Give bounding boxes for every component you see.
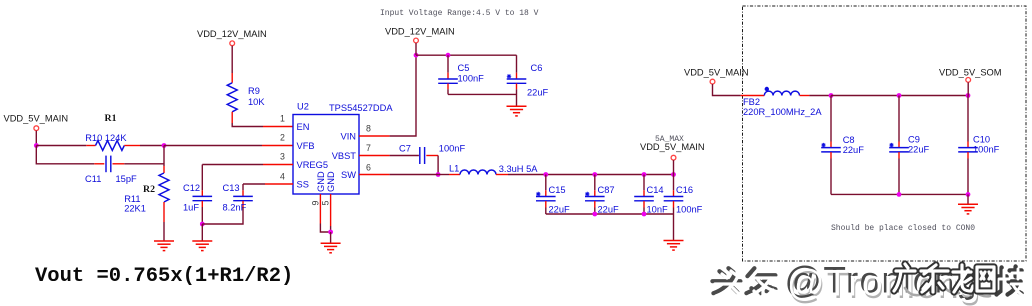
wire R9 to EN pin 1 [232,123,293,127]
svg-text:C5: C5 [458,63,470,73]
svg-text:Vout =0.765x(1+R1/R2): Vout =0.765x(1+R1/R2) [35,265,293,288]
wire junction to VFB pin 2 [164,145,293,147]
node C15 top [543,172,548,177]
wire C13 to junction [202,207,243,224]
svg-text:R1: R1 [105,113,117,124]
svg-text:SW: SW [341,170,356,180]
wire port to node [35,131,37,146]
ground under IC [321,243,341,253]
svg-text:R9: R9 [248,86,260,96]
svg-text:10K: 10K [248,97,265,107]
watermark overlay glyph 网 [977,267,994,291]
svg-text:22K1: 22K1 [124,204,146,214]
wire VBST pin 7 [359,155,419,157]
svg-text:22uF: 22uF [527,88,549,98]
svg-text:22uF: 22uF [549,205,571,215]
svg-text:C12: C12 [183,183,200,193]
wire bus to ground [673,214,675,241]
watermark hidden strokes under overlay [905,286,990,296]
power port VDD_5V_MAIN (output) [640,142,705,160]
capacitor C9 22uF polarized [889,96,929,195]
svg-text:VDD_12V_MAIN: VDD_12V_MAIN [197,29,267,39]
svg-text:10nF: 10nF [647,205,669,215]
power port VDD_5V_SOM [939,67,1002,82]
svg-text:GND: GND [316,171,326,192]
wire SW pin 6 [359,174,438,176]
svg-text:8: 8 [366,124,371,134]
node C14 bottom [642,212,647,217]
node C87 top [592,172,597,177]
wire input cap bottom bus [448,93,517,95]
wire GND pin 5 [330,194,332,232]
svg-text:VIN: VIN [341,132,357,142]
node C87 bottom [592,212,597,217]
svg-text:C10: C10 [973,135,990,145]
wire port to FB2 [713,84,765,96]
watermark overlay glyph 龙 [953,265,973,292]
svg-text:R2: R2 [143,184,155,195]
svg-text:VDD_5V_MAIN: VDD_5V_MAIN [640,142,705,152]
svg-text:22uF: 22uF [908,145,930,155]
capacitor C16 100nF [664,175,703,215]
svg-text:C11: C11 [85,174,101,184]
watermark overlay glyph 广 [894,264,915,291]
svg-text:Input Voltage Range:4.5 V to 1: Input Voltage Range:4.5 V to 18 V [380,9,539,18]
svg-text:100nF: 100nF [676,205,703,215]
watermark text @Tronlong [785,260,982,306]
node C12/C13 ground junction [200,222,205,227]
wire input rail [416,54,517,56]
svg-text:4: 4 [280,172,285,182]
svg-text:VDD_12V_MAIN: VDD_12V_MAIN [385,27,455,37]
wire junction to ground [201,224,203,241]
svg-text:Should be place closed to CON0: Should be place closed to CON0 [831,224,975,233]
svg-text:1: 1 [280,114,285,124]
svg-text:22uF: 22uF [598,205,620,215]
wire R10 to junction [140,145,164,147]
resistor R10 124K [85,133,140,150]
wire C12 to junction [201,207,203,224]
wire output cap bottom bus [546,213,674,215]
svg-text:2: 2 [280,133,285,143]
dashed region box [743,6,1027,261]
svg-text:C15: C15 [549,185,566,195]
svg-text:1uF: 1uF [183,203,199,213]
svg-text:SS: SS [297,180,309,190]
watermark [712,260,1024,306]
node C9 bottom [897,192,902,197]
wire L1 to output rail [508,174,546,176]
wire VREG5 pin 3 [202,165,293,191]
watermark glyph 头 [712,268,743,296]
wire port to rail [967,82,969,95]
node C5 top [446,53,451,58]
node C10 bottom [966,192,971,197]
capacitor C15 22uF polarized [536,175,570,215]
svg-text:C6: C6 [531,63,543,73]
node VIN rail junction [414,53,419,58]
node C9 top [897,93,902,98]
svg-text:22uF: 22uF [843,145,865,155]
svg-text:C16: C16 [676,185,693,195]
svg-text:C9: C9 [908,135,920,145]
capacitor C11 15pF [85,156,137,184]
svg-text:3.3uH 5A: 3.3uH 5A [499,164,539,174]
wire node to R10 [36,145,86,147]
power port VDD_5V_MAIN (right) [684,67,749,84]
wire output rail [546,174,674,176]
svg-text:VDD_5V_SOM: VDD_5V_SOM [939,67,1002,77]
resistor R11 22K1 [124,146,169,223]
node feedback junction [162,143,167,148]
watermark overlay glyph 东 [921,265,948,292]
svg-text:7: 7 [366,143,371,153]
wire FB2 to rail [809,95,831,97]
capacitor C5 100nF [438,55,484,94]
node IC ground junction [328,230,333,235]
svg-text:C13: C13 [223,183,240,193]
svg-text:C8: C8 [843,135,855,145]
wire SOM bottom bus [831,193,968,195]
ground under C16 [664,241,684,251]
svg-text:L1: L1 [449,163,459,173]
ferrite bead FB2 220R_100MHz_2A [743,87,822,117]
svg-text:U2: U2 [297,102,309,112]
svg-text:R10 124K: R10 124K [85,133,127,143]
watermark glyph 条 [746,268,778,296]
wire down to C11 branch [36,146,94,164]
svg-text:6: 6 [366,163,371,173]
wire SS pin 4 [243,184,293,190]
wire VIN pin 8 [359,55,416,136]
wire C7 down to SW [437,156,439,175]
wire port to rail [415,43,417,55]
ground under C10 [958,204,978,214]
capacitor C87 22uF polarized [585,175,619,215]
svg-text:VBST: VBST [332,151,357,161]
svg-text:100nF: 100nF [458,74,485,84]
svg-text:VFB: VFB [297,141,315,151]
svg-text:VDD_5V_MAIN: VDD_5V_MAIN [684,67,749,77]
wire to ground [330,232,332,243]
svg-text:C87: C87 [598,185,615,195]
ground under C12 [192,241,212,251]
svg-text:VREG5: VREG5 [297,160,329,170]
resistor R9 10K [227,73,265,123]
svg-text:5: 5 [321,201,331,206]
svg-text:C14: C14 [647,185,664,195]
capacitor C13 8.2nF [223,183,253,213]
svg-text:R11: R11 [124,194,140,204]
node C8 top [829,93,834,98]
capacitor C8 22uF polarized [821,96,864,195]
wire bus to ground [967,194,969,204]
svg-text:FB2: FB2 [743,97,760,107]
svg-text:VDD_5V_MAIN: VDD_5V_MAIN [4,114,69,124]
capacitor C7 100nF [399,143,465,164]
power port VDD_5V_MAIN (left) [4,114,69,131]
inductor L1 3.3uH 5A [438,163,538,174]
svg-text:3: 3 [280,152,285,162]
wire port to rail [673,160,675,174]
svg-text:EN: EN [297,122,310,132]
svg-text:100nF: 100nF [439,143,466,153]
ground under R11 [154,241,174,251]
svg-text:GND: GND [326,171,336,192]
wire GND pin 9 [320,194,330,232]
wire C11 to node [124,163,164,165]
ground under C6 [507,106,527,116]
svg-text:9: 9 [311,201,321,206]
node SW junction [436,172,441,177]
svg-text:TPS54527DDA: TPS54527DDA [329,103,393,113]
watermark glyph 技 [997,267,1024,298]
capacitor C10 100nF [958,96,999,195]
node C14 top [642,172,647,177]
IC U2 TPS54527DDA [293,102,393,195]
node C16 top [671,172,676,177]
capacitor C12 1uF [183,183,212,213]
svg-text:100nF: 100nF [973,145,1000,155]
svg-text:C7: C7 [399,143,411,153]
wire port to R9 [231,46,233,73]
wire SOM rail [831,95,968,97]
svg-text:15pF: 15pF [116,174,138,184]
capacitor C6 22uF polarized [507,55,549,106]
node C10 top [966,93,971,98]
svg-text:220R_100MHz_2A: 220R_100MHz_2A [743,107,822,117]
wire R11 to ground [163,222,165,241]
node divider input junction [34,143,39,148]
power port VDD_12V_MAIN (VIN) [385,27,455,43]
capacitor C14 10nF [634,175,668,215]
power port VDD_12V_MAIN (R9) [197,29,267,46]
